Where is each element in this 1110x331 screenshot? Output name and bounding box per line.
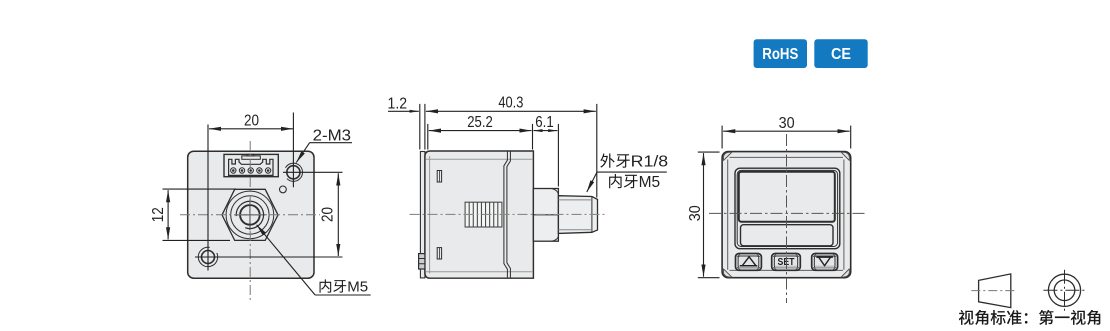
dimension 25.2 bbox=[429, 130, 532, 132]
button down bbox=[812, 254, 838, 271]
hex center crosshair bbox=[235, 200, 266, 231]
dimension 20 right bbox=[337, 173, 339, 256]
dimension 30 left bbox=[698, 152, 720, 278]
button SET bbox=[772, 254, 801, 271]
back connector tab bbox=[419, 254, 425, 269]
label 内牙M5 side view bbox=[609, 174, 660, 191]
dimension 6.1 bbox=[534, 130, 558, 132]
projection circles symbol bbox=[1048, 274, 1080, 306]
svg-text:6.1: 6.1 bbox=[535, 114, 554, 131]
CE badge bbox=[814, 39, 867, 68]
svg-text:M5: M5 bbox=[347, 279, 368, 296]
front view body bbox=[722, 152, 851, 278]
svg-text:30: 30 bbox=[779, 115, 795, 132]
svg-text:2-M3: 2-M3 bbox=[313, 127, 352, 144]
display lower band bbox=[741, 225, 834, 246]
front face inner lines bbox=[728, 157, 844, 270]
svg-text:20: 20 bbox=[320, 207, 337, 222]
dimension 12 left bbox=[163, 189, 237, 240]
RoHS badge bbox=[754, 39, 807, 68]
svg-text:R1/8: R1/8 bbox=[631, 154, 669, 171]
side view body bbox=[425, 151, 534, 278]
label 外牙R1/8 bbox=[600, 153, 668, 170]
dimension 20 top bbox=[209, 128, 293, 130]
centerline side view bbox=[410, 213, 608, 215]
svg-text:1.2: 1.2 bbox=[388, 96, 408, 113]
svg-text:M5: M5 bbox=[639, 174, 661, 191]
vertical centerline left view bbox=[249, 141, 251, 302]
hex nut side view bbox=[533, 189, 558, 242]
label 内牙M5 left view bbox=[320, 279, 369, 296]
dimension 30 top bbox=[722, 126, 851, 149]
connector pins bbox=[231, 168, 236, 173]
left view body bbox=[188, 151, 314, 278]
threaded stub R1/8 bbox=[558, 196, 597, 234]
bezel parting line bbox=[504, 151, 511, 278]
screw hole bottom-left M3 bbox=[202, 251, 215, 264]
projection cone symbol bbox=[979, 274, 1011, 308]
connector inner profile bbox=[229, 159, 273, 175]
caption first angle projection bbox=[959, 310, 1101, 325]
button up bbox=[736, 254, 762, 271]
svg-text:CE: CE bbox=[831, 46, 851, 63]
vent hatch bbox=[465, 202, 502, 227]
svg-text:20: 20 bbox=[244, 112, 259, 129]
body edge highlight lines bbox=[426, 156, 533, 274]
svg-text:30: 30 bbox=[687, 205, 704, 221]
connector key tab bbox=[242, 156, 260, 159]
hex nut bbox=[222, 189, 278, 240]
thread minor lines bbox=[558, 200, 592, 230]
connector housing bbox=[224, 154, 278, 176]
display screen bbox=[739, 172, 835, 222]
extension+crosshair lines holes bbox=[195, 113, 343, 271]
side view back plate bbox=[420, 152, 425, 278]
corner ears bbox=[723, 152, 849, 277]
label slot bottom bbox=[437, 248, 441, 259]
svg-text:40.3: 40.3 bbox=[498, 95, 523, 112]
label slot top bbox=[437, 171, 441, 183]
thread arc M5 bbox=[236, 201, 263, 228]
svg-text:25.2: 25.2 bbox=[467, 114, 493, 131]
centerlines front view bbox=[786, 134, 788, 303]
leader line fitting bbox=[597, 171, 667, 173]
svg-text:RoHS: RoHS bbox=[762, 46, 798, 63]
svg-text:12: 12 bbox=[150, 207, 167, 222]
dimension 40.3 bbox=[426, 110, 596, 112]
dimension 1.2 bbox=[388, 110, 419, 112]
display bezel bbox=[735, 168, 840, 249]
port hole M5 bbox=[240, 205, 260, 225]
horizontal centerline left view bbox=[180, 214, 320, 216]
screw hole top-right M3 bbox=[287, 166, 300, 179]
small pilot circle bbox=[280, 186, 287, 193]
port circles bbox=[226, 191, 274, 239]
extension lines side view dims bbox=[420, 104, 597, 198]
